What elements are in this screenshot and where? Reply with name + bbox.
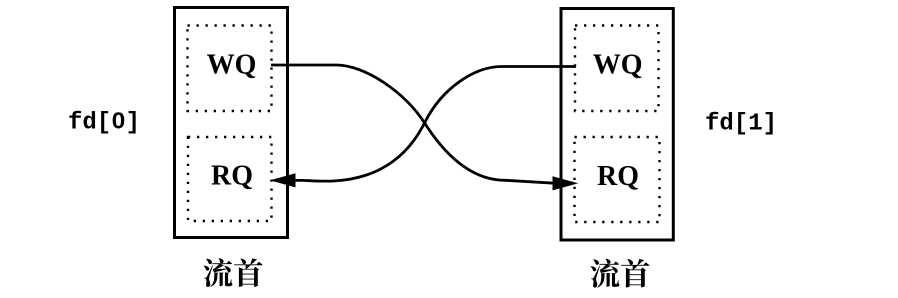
right RQ dotted queue box (575, 137, 660, 222)
left stream head box (175, 8, 288, 238)
arrowhead into right RQ (553, 177, 577, 190)
svg-text:RQ: RQ (597, 161, 639, 192)
label liu-shou (stream head) left (204, 258, 263, 287)
svg-text:RQ: RQ (211, 161, 253, 192)
svg-text:fd[1]: fd[1] (705, 111, 777, 138)
svg-text:fd[0]: fd[0] (68, 110, 140, 137)
label liu-shou (stream head) right (591, 259, 650, 288)
wire right WQ to left RQ (292, 67, 576, 182)
svg-text:WQ: WQ (207, 49, 257, 80)
left RQ dotted queue box (188, 137, 272, 221)
wire left WQ to right RQ (271, 65, 554, 183)
arrowhead into left RQ (272, 174, 296, 187)
svg-text:WQ: WQ (593, 50, 643, 81)
left WQ dotted queue box (188, 26, 272, 112)
right WQ dotted queue box (575, 26, 659, 112)
right stream head box (561, 9, 673, 241)
zero glyph dot cover (116, 118, 120, 122)
